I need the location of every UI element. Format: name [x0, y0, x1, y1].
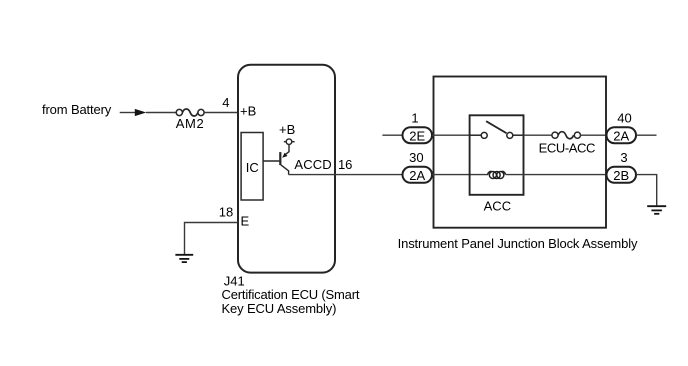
relay switch contacts: [470, 132, 524, 138]
wire fuse to 2A: [581, 134, 607, 136]
transistor Q (output, in ECU): [263, 145, 289, 175]
svg-text:Instrument Panel Junction Bloc: Instrument Panel Junction Block Assembly: [398, 236, 638, 251]
svg-text:1: 1: [411, 111, 418, 126]
fuse AM2: [176, 109, 204, 116]
svg-text:3: 3: [620, 150, 627, 165]
svg-text:2B: 2B: [613, 168, 629, 183]
svg-text:Certification ECU (Smart: Certification ECU (Smart: [222, 287, 360, 302]
svg-text:from Battery: from Battery: [42, 102, 112, 117]
svg-text:4: 4: [222, 95, 229, 110]
emitter wire from +B circle: [285, 145, 290, 156]
ground (ECU E terminal): [175, 255, 193, 262]
connector 2E: [403, 127, 433, 143]
ground (junction block): [647, 206, 666, 214]
internal +B terminal circle: [284, 139, 295, 145]
svg-text:IC: IC: [246, 160, 259, 175]
wire E to ground: [185, 223, 239, 255]
connector 2B (pin 3): [607, 167, 637, 183]
svg-text:+B: +B: [279, 122, 295, 137]
wire stub from 2A: [637, 134, 657, 136]
emitter arrowhead: [282, 153, 287, 158]
svg-text:18: 18: [219, 204, 233, 219]
wire stub into 2E: [382, 134, 402, 136]
svg-text:2A: 2A: [409, 168, 425, 183]
wire coil to 2B: [506, 174, 606, 176]
connector 2A (pin 30): [403, 167, 433, 183]
wire ACCD to junction block 2A: [289, 174, 402, 176]
svg-text:AM2: AM2: [176, 116, 204, 131]
ECU J41 box: [238, 65, 335, 273]
svg-text:30: 30: [409, 150, 423, 165]
relay switch blade: [486, 121, 506, 133]
wire from Battery with arrowhead: [120, 112, 176, 114]
IC block: [241, 133, 263, 201]
svg-text:ACC: ACC: [484, 198, 512, 213]
svg-text:2E: 2E: [409, 129, 425, 144]
svg-text:ECU-ACC: ECU-ACC: [539, 140, 596, 155]
relay coil: [488, 171, 506, 178]
collector wire to output: [281, 165, 289, 175]
svg-text:Key ECU Assembly): Key ECU Assembly): [222, 301, 337, 316]
wire 2E to relay: [432, 134, 469, 136]
svg-text:E: E: [241, 213, 250, 228]
svg-text:ACCD: ACCD: [294, 157, 331, 172]
fuse ECU-ACC: [552, 132, 581, 139]
wire fuse to ECU pin 4: [204, 112, 238, 114]
svg-text:16: 16: [338, 157, 352, 172]
wire 2B to ground: [637, 175, 657, 206]
base bar: [279, 152, 281, 165]
wire 2A to relay coil: [432, 174, 488, 176]
svg-text:2A: 2A: [613, 129, 629, 144]
Instrument Panel Junction Block box: [434, 77, 607, 228]
svg-text:40: 40: [617, 111, 631, 126]
connector 2A (pin 40): [607, 127, 637, 143]
svg-text:+B: +B: [240, 104, 256, 119]
wire relay to fuse: [524, 134, 553, 136]
relay ACC box: [470, 115, 524, 195]
base wire from IC: [263, 160, 279, 162]
